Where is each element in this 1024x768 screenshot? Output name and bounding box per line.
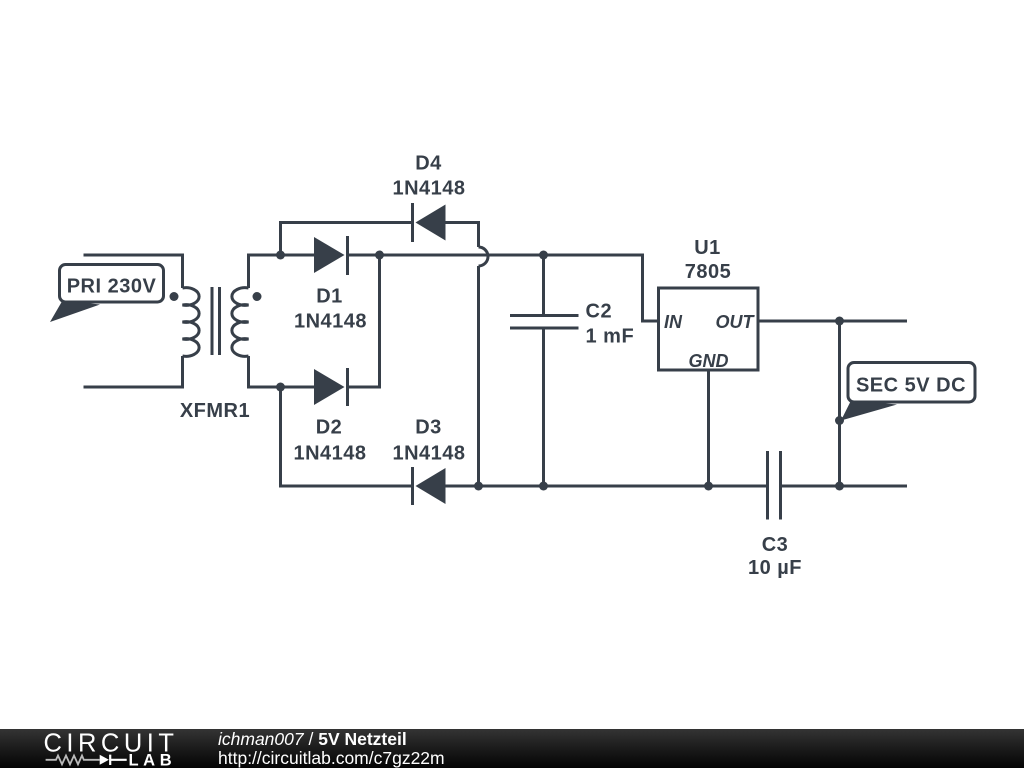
wire D4 to corner: [446, 223, 479, 248]
diode D1 cathode bar: [346, 236, 349, 275]
transformer XFMR1 secondary coil: [232, 288, 249, 357]
diode D3 cathode bar: [411, 467, 414, 505]
capacitor C3 plates: [768, 451, 781, 520]
svg-text:C3: C3: [762, 534, 789, 556]
capacitor C2 plates: [510, 316, 579, 329]
svg-text:D1: D1: [316, 286, 343, 308]
diode D1 triangle: [314, 237, 345, 273]
capacitor C2 top lead: [542, 255, 545, 316]
diode D2 triangle: [314, 369, 345, 405]
wire node A horizontal: [281, 254, 315, 257]
wire secondary top: [249, 255, 281, 288]
svg-text:C2: C2: [586, 301, 613, 323]
svg-text:1N4148: 1N4148: [294, 311, 367, 333]
wire bottom rail right: [781, 485, 908, 488]
junction node secondary bottom: [276, 383, 285, 392]
svg-text:1N4148: 1N4148: [293, 443, 366, 465]
junction node A: [276, 251, 285, 260]
junction node OUT: [835, 317, 844, 326]
svg-text:OUT: OUT: [716, 312, 756, 332]
capacitor C2 bottom lead: [542, 328, 545, 486]
wire primary top: [84, 255, 183, 288]
footer bar: [0, 729, 1024, 768]
svg-text:http://circuitlab.com/c7gz22m: http://circuitlab.com/c7gz22m: [218, 748, 445, 768]
IC U1 7805 regulator box: [659, 288, 759, 370]
svg-text:U1: U1: [694, 237, 721, 259]
svg-text:SEC 5V DC: SEC 5V DC: [856, 375, 966, 397]
junction node SEC anchor: [835, 416, 844, 425]
diode D3 triangle: [416, 468, 446, 504]
svg-text:1 mF: 1 mF: [586, 326, 635, 348]
svg-text:PRI 230V: PRI 230V: [67, 276, 157, 298]
svg-text:7805: 7805: [685, 261, 732, 283]
junction node C2 top: [539, 251, 548, 260]
wire U1 OUT: [758, 320, 907, 323]
callout PRI 230V box: [60, 265, 164, 303]
junction node D1 out: [375, 251, 384, 260]
wire D2 up to node: [348, 255, 380, 387]
diode D4 cathode bar: [411, 203, 414, 242]
wire secondary bottom: [249, 356, 281, 387]
wire bottom rail: [446, 485, 767, 488]
wire bridge left riser: [281, 223, 413, 256]
transformer secondary phase dot: [253, 292, 262, 301]
CircuitLab logo diode: [100, 755, 109, 765]
callout SEC tail: [841, 401, 897, 421]
svg-text:ichman007 / 5V Netzteil: ichman007 / 5V Netzteil: [218, 729, 407, 749]
transformer XFMR1 primary coil: [183, 288, 200, 357]
svg-text:D4: D4: [415, 153, 442, 175]
wire D2 input: [281, 386, 315, 389]
wire bridge right drop: [477, 266, 480, 486]
wire output drop: [838, 321, 841, 486]
svg-text:LAB: LAB: [129, 751, 177, 768]
CircuitLab logo resistor zigzag: [46, 756, 100, 765]
svg-text:1N4148: 1N4148: [392, 443, 465, 465]
wire U1 GND: [707, 370, 710, 486]
svg-text:1N4148: 1N4148: [392, 178, 465, 200]
wire hop over node: [479, 247, 489, 266]
callout PRI tail: [50, 301, 100, 323]
wire D1 to U1: [348, 255, 659, 321]
wire primary bottom: [84, 356, 183, 387]
wire left drop to bottom rail: [281, 387, 413, 486]
svg-text:XFMR1: XFMR1: [180, 400, 250, 422]
transformer XFMR1 core: [212, 287, 220, 355]
svg-text:GND: GND: [689, 351, 729, 371]
svg-text:D2: D2: [316, 417, 343, 439]
svg-text:D3: D3: [415, 417, 442, 439]
junction node bottom right: [835, 482, 844, 491]
svg-text:10 µF: 10 µF: [748, 557, 802, 579]
junction node C2 bottom: [539, 482, 548, 491]
svg-text:IN: IN: [664, 312, 683, 332]
diode D4 triangle: [416, 205, 446, 241]
junction node GND rail: [704, 482, 713, 491]
transformer primary phase dot: [170, 292, 179, 301]
callout SEC 5V DC box: [848, 363, 975, 403]
junction node bridge bottom: [474, 482, 483, 491]
diode D2 cathode bar: [346, 368, 349, 406]
